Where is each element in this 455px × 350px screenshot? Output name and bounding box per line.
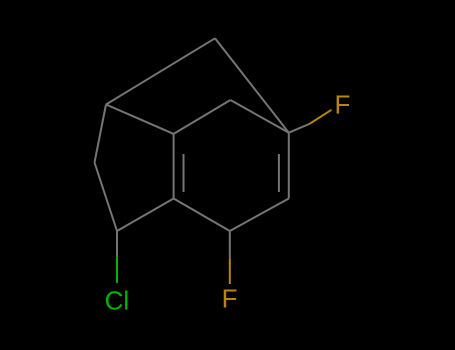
double bond inner line s1-s2 <box>183 154 185 192</box>
bond T-Lt (upper left long edge) <box>106 38 215 104</box>
bond m-C(Cl) (left edge lower part) <box>95 163 118 232</box>
bond b2-C(F2) (lower right diagonal) <box>230 199 289 232</box>
double bond inner line b1-b2 <box>278 154 280 192</box>
bond s1-s2 (middle vertical) <box>173 134 175 199</box>
bond T-b1 (upper right long edge) <box>215 38 289 132</box>
bond b1-F1 carbon half <box>289 124 310 133</box>
bond C(Cl)-Cl carbon half <box>116 231 118 257</box>
bond C(F2)-F2 carbon half <box>229 231 231 259</box>
svg-text:Cl: Cl <box>105 285 130 315</box>
bond s1-Rt (roof middle) <box>174 100 231 134</box>
svg-text:F: F <box>222 284 238 314</box>
bond C(Cl)-s2 (lower left diagonal) <box>117 199 174 232</box>
bond b1-b2 (right vertical) <box>288 133 290 199</box>
bond F1 halogen half <box>310 110 332 124</box>
bond F2 halogen half <box>229 259 231 284</box>
bond C(F2)-s2 (lower middle diagonal) <box>174 199 230 232</box>
bond Cl halogen half <box>116 257 118 283</box>
bond Lt-m (left edge upper part) <box>95 105 107 163</box>
bond Rt-b1 (roof right) <box>230 100 288 133</box>
svg-text:F: F <box>335 90 351 120</box>
bond Lt-s1 (roof left) <box>106 105 174 134</box>
